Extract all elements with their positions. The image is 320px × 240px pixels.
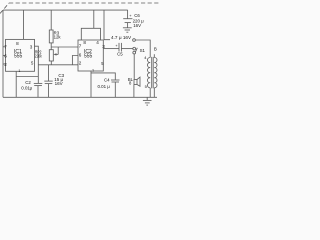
capacitor C3: [44, 65, 64, 98]
svg-text:16V: 16V: [133, 23, 141, 28]
ground symbol at bottom right: [143, 97, 152, 105]
wire: IC2 pin 1 drop to ground rail: [90, 71, 92, 97]
ground symbol under C6: [123, 28, 132, 32]
svg-text:6: 6: [4, 54, 7, 59]
primary winding: [148, 58, 151, 88]
svg-text:+: +: [129, 13, 132, 18]
op-amp-style box IC1 555: [4, 39, 34, 73]
wire: IC2 pin 5 jog to C4: [91, 73, 115, 80]
wire: left rail: [2, 10, 4, 97]
dashed frame border: [0, 3, 160, 14]
svg-text:1: 1: [18, 69, 20, 73]
svg-text:B: B: [154, 47, 157, 52]
wire: IC1 pin 8 stub to top rail: [23, 10, 25, 39]
resistor R3: [49, 10, 61, 50]
svg-text:C4: C4: [104, 77, 110, 82]
svg-text:5: 5: [31, 61, 34, 66]
wire: supply branch from top rail to output jack row: [104, 10, 110, 40]
wire: IC2 pin 3 to C5: [103, 48, 119, 50]
wire: C5 to jack A: [122, 48, 133, 50]
secondary winding: [154, 58, 157, 88]
wire: IC1 pin 3 output down and across to IC2 pin 2: [35, 46, 39, 83]
svg-text:4: 4: [96, 40, 99, 45]
wire: IC2 pin 6 bracket to pin 2 wire: [72, 56, 78, 65]
wire: IC2 pins 8 and 4 bridge to top rail: [81, 28, 100, 40]
svg-text:7: 7: [79, 44, 82, 49]
svg-text:555: 555: [14, 54, 23, 60]
svg-text:3: 3: [30, 44, 33, 49]
node B terminal circle: [133, 39, 136, 42]
wire: R3/RP2 junction to IC2 pin 7: [51, 46, 78, 48]
svg-text:0.01 μ: 0.01 μ: [98, 84, 111, 89]
svg-text:S1: S1: [140, 48, 146, 53]
svg-text:2: 2: [4, 62, 7, 67]
op-amp-style box IC2 555: [78, 40, 105, 71]
svg-text:μ: μ: [30, 85, 33, 90]
capacitor C2: [21, 80, 42, 97]
wire: IC1 pin 7 stub: [3, 46, 6, 48]
capacitor C5: [117, 43, 123, 57]
svg-text:8: 8: [16, 41, 19, 46]
wire: switch to speaker: [133, 54, 135, 80]
svg-text:12k: 12k: [54, 35, 62, 40]
svg-text:+: +: [115, 44, 118, 48]
svg-text:8: 8: [83, 40, 86, 45]
svg-text:C6: C6: [134, 13, 140, 18]
svg-text:5: 5: [101, 61, 104, 66]
potentiometer RP2: [35, 47, 58, 65]
core: [151, 57, 153, 88]
wire: IC1 pin 6 stub: [3, 55, 6, 57]
wire: IC1 pin 2 stub: [3, 63, 6, 65]
wire: top supply rail: [3, 9, 128, 11]
svg-text:2: 2: [79, 61, 82, 66]
switch S1: [133, 48, 146, 54]
wire: node B to transformer primary: [135, 40, 150, 58]
wire: IC1 pin 5 jog to C2: [17, 76, 39, 78]
wire: speaker to ground rail: [133, 85, 135, 98]
svg-text:C2: C2: [25, 80, 31, 85]
svg-text:1: 1: [92, 68, 94, 72]
svg-text:4.7 μ 16V: 4.7 μ 16V: [111, 35, 132, 40]
wire: bottom ground rail: [3, 96, 157, 98]
svg-text:6: 6: [79, 52, 82, 57]
capacitor C4: [98, 77, 120, 97]
svg-text:C5: C5: [117, 52, 123, 57]
transformer B: [144, 47, 157, 98]
svg-text:555: 555: [84, 54, 93, 60]
capacitor C6 electrolytic: [123, 10, 144, 28]
svg-text:16V: 16V: [55, 81, 63, 86]
speaker BL: [128, 77, 140, 87]
svg-text:4: 4: [144, 55, 147, 60]
wire: IC1 pin 1 drop to ground rail: [15, 71, 17, 97]
svg-text:220k: 220k: [35, 53, 43, 58]
node A terminal circle: [133, 47, 136, 50]
